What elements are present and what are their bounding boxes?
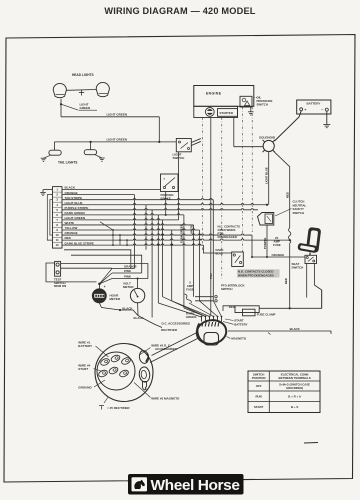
clutch neutral safety switch [258,213,274,226]
wire row9 drop [198,230,200,301]
svg-text:TAIL LIGHTS: TAIL LIGHTS [58,161,77,165]
wire row8 drop white [193,225,195,297]
wire row 12 DARK BLUE STRIPE [62,244,203,245]
fuse clamp [235,306,259,313]
tail light right [84,150,96,155]
junction row4 light blue [266,204,268,206]
ground oil pressure [250,107,252,112]
svg-text:TAN: TAN [209,273,213,279]
wire red to fuse clamp [223,306,235,311]
wire row12 drop dark blue [203,245,231,253]
svg-text:BATTERY: BATTERY [307,101,321,105]
wire starter to solenoid [233,118,235,147]
wire row10 orange to seat [252,235,305,257]
wire row 7 LIGHT GREEN [62,219,179,220]
svg-text:+: + [104,285,106,289]
wire black meters [99,303,120,310]
wire black right [228,331,331,334]
wire row6 drop dark green [183,215,185,308]
parking brake [161,174,179,192]
pto linkage dash left [202,118,204,251]
svg-text:12: 12 [56,243,60,247]
svg-text:TAN STRIPE: TAN STRIPE [65,196,83,200]
svg-text:BLACK: BLACK [65,186,76,190]
wire key to magneto diagonals [152,333,197,356]
wire row 11 RED [62,239,290,240]
svg-text:SWITCH: SWITCH [221,287,232,291]
svg-text:METER: METER [110,297,121,301]
svg-text:10: 10 [56,233,60,237]
headlight left [53,83,66,97]
wire row 4 LIGHT BLUE [62,204,267,205]
pto switch box [232,252,244,267]
svg-text:RED: RED [65,236,72,240]
svg-text:B + S: B + S [291,405,298,409]
svg-text:MOM ON: MOM ON [54,284,66,288]
wire seat drops [306,264,308,298]
svg-text:RED: RED [285,192,289,198]
wire headlight drop [60,99,62,104]
solenoid [263,140,274,151]
svg-text:START: START [78,367,88,371]
light switch lever [191,139,201,143]
pto linkage dash right [221,118,223,281]
svg-text:WHEN PTO DISENGAGED: WHEN PTO DISENGAGED [238,273,274,277]
battery terminal + [300,108,303,111]
svg-text:Wheel Horse: Wheel Horse [151,478,240,494]
tail light left [49,150,61,155]
svg-text:ENGINE: ENGINE [206,92,222,96]
wire vertical to lower trunk [158,117,160,142]
junction cluster lower left [112,230,114,245]
ground battery [326,111,328,124]
wire row 8 WHITE [62,224,194,225]
svg-text:LIGHT GREEN: LIGHT GREEN [107,112,128,116]
hour meter [92,289,106,303]
svg-text:PURPLE: PURPLE [263,238,267,249]
svg-text:RED: RED [229,305,235,309]
wire parking brake drop [165,192,167,215]
svg-text:LIGHT BLUE: LIGHT BLUE [264,167,268,184]
oil pressure switch [240,96,252,107]
key switch terminals [100,357,111,366]
svg-text:DISENGAGED: DISENGAGED [218,235,237,239]
wire fan to magneto [158,303,201,317]
svg-text:+: + [304,108,306,112]
svg-text:FUSE: FUSE [186,288,194,292]
wire row 3 TAN STRIPE [62,199,213,200]
svg-text:PINK: PINK [124,269,132,273]
svg-text:RECTIFIER: RECTIFIER [161,328,178,332]
wire row3 drop tan [212,200,214,301]
light green pointer [61,104,79,110]
svg-text:DARK GREEN: DARK GREEN [65,211,85,215]
svg-text:BLUE: BLUE [216,252,224,256]
svg-text:SWITCH: SWITCH [257,103,268,107]
svg-text:SWITCH: SWITCH [292,266,304,270]
wire row 5 PURPLE STRIPE [62,209,258,210]
wire solenoid light blue drop [268,152,270,205]
scan mark [304,442,318,445]
wire test switch lower [61,267,113,269]
wire step B [71,255,142,273]
svg-text:GROUNDED): GROUNDED) [286,386,303,390]
headlight center tap [81,90,83,96]
wire pink 1 [112,272,142,274]
svg-text:ORANGE: ORANGE [124,264,137,268]
svg-text:HEAD LIGHTS: HEAD LIGHTS [72,73,94,77]
ground tail left [44,155,51,158]
svg-text:SOLENOID: SOLENOID [259,135,276,139]
key switch body [95,344,153,402]
svg-text:PINK: PINK [124,274,132,278]
svg-text:STARTER: STARTER [220,111,234,115]
svg-text:−: − [321,108,323,112]
wheel horse logo [128,474,244,495]
svg-text:BETWEEN TERMINALS: BETWEEN TERMINALS [279,376,311,380]
svg-text:BLACK: BLACK [290,327,301,331]
svg-text:FUSE CLAMP: FUSE CLAMP [257,312,276,316]
ground connector pin1 [43,189,53,191]
wire test switch left [46,263,97,282]
wire solenoid red diagonal [274,151,290,228]
battery [297,100,331,114]
starter box [218,109,238,117]
seat [306,227,321,253]
svg-text:WHITE: WHITE [189,225,193,234]
wire light green upper [60,104,62,117]
svg-text:SWITCH: SWITCH [293,211,304,215]
svg-text:PURPLE STRIPE: PURPLE STRIPE [65,206,89,210]
mag circle [205,108,214,117]
oil switch dash drop 2 [251,107,253,232]
wire headlights crossbar [66,89,96,92]
light switch [176,139,191,152]
battery terminal - [325,108,328,111]
svg-text:= #5 RECTIFIER: = #5 RECTIFIER [107,406,130,410]
wire step C [61,264,148,279]
wire row 9 YELLOW [62,229,199,230]
svg-text:POSITION: POSITION [252,376,266,380]
svg-text:11: 11 [56,238,59,242]
svg-text:D.C. ACCESSORIES: D.C. ACCESSORIES [161,322,190,326]
bracket connector left [47,195,52,240]
svg-text:BATTERY: BATTERY [78,344,92,348]
clutch pointer [275,209,292,217]
magneto [195,318,228,345]
engine box [194,86,254,107]
oil switch dash drop 1 [242,107,244,252]
svg-text:GREEN: GREEN [80,106,91,110]
svg-text:START: START [254,405,264,409]
wire battery cable [275,111,302,141]
key [139,350,150,364]
svg-text:WIRING DIAGRAM — 420 MODEL: WIRING DIAGRAM — 420 MODEL [104,6,255,16]
svg-text:LIGHT GREEN: LIGHT GREEN [65,216,86,220]
note no contacts [237,269,280,277]
connector block [53,187,63,249]
wire step A [64,250,131,269]
svg-text:ORANGE: ORANGE [65,231,78,235]
wire row 6 DARK GREEN [62,214,184,215]
wire pink 2 [112,278,148,280]
svg-text:WHITE: WHITE [65,221,75,225]
svg-text:LIGHT BLUE: LIGHT BLUE [65,201,83,205]
svg-text:GROUND: GROUND [78,385,92,389]
fuse squiggle 5 amp [185,294,192,303]
fuse 25 amp squiggle [289,228,291,243]
svg-text:LIGHT GREEN: LIGHT GREEN [107,137,128,141]
svg-text:WIRE #3 MAGNETO: WIRE #3 MAGNETO [151,397,180,401]
svg-text:METER: METER [123,285,134,289]
junction row11 red [289,239,291,241]
svg-text:BLACK: BLACK [134,316,145,320]
magneto terminals [201,317,203,322]
svg-text:YELLOW: YELLOW [65,226,78,230]
wire purple below clutch [266,225,268,257]
wire orange meters [112,268,135,270]
test switch [55,261,61,276]
svg-text:ORANGE: ORANGE [272,253,285,257]
wire light green lower [54,141,176,143]
wire row 1 BLACK [62,189,161,191]
svg-text:BATTERY: BATTERY [234,322,247,326]
svg-text:GREEN: GREEN [186,315,196,319]
svg-text:DARK BLUE STRIPE: DARK BLUE STRIPE [65,241,94,245]
starter section [194,106,238,117]
svg-text:MAGNETO: MAGNETO [231,337,246,341]
pto interlock contacts [195,296,213,298]
wire fuse clamp out [259,290,322,308]
seat switch [305,255,317,263]
headlight right [96,82,109,96]
wire row 2 ORANGE [62,194,135,196]
wire row2 drop orange [134,195,136,269]
svg-text:RED: RED [284,278,288,284]
svg-text:BLACK: BLACK [122,307,133,311]
ground tail right [95,155,102,158]
wire light switch drop [178,152,180,220]
svg-text:OFF: OFF [256,384,262,388]
wire mag drop [210,118,212,317]
svg-text:ORANGE: ORANGE [65,191,78,195]
switch position table [248,371,320,413]
svg-text:RUN: RUN [255,394,261,398]
svg-text:FUSE: FUSE [273,243,281,247]
wire row 10 ORANGE [62,234,252,235]
decorative drops [151,210,153,318]
magneto hatch [202,322,203,327]
svg-text:DARK GREEN: DARK GREEN [180,224,184,243]
wire fan to hour meter [100,269,113,284]
volt meter [130,288,144,302]
svg-text:B + R + A: B + R + A [288,394,302,398]
